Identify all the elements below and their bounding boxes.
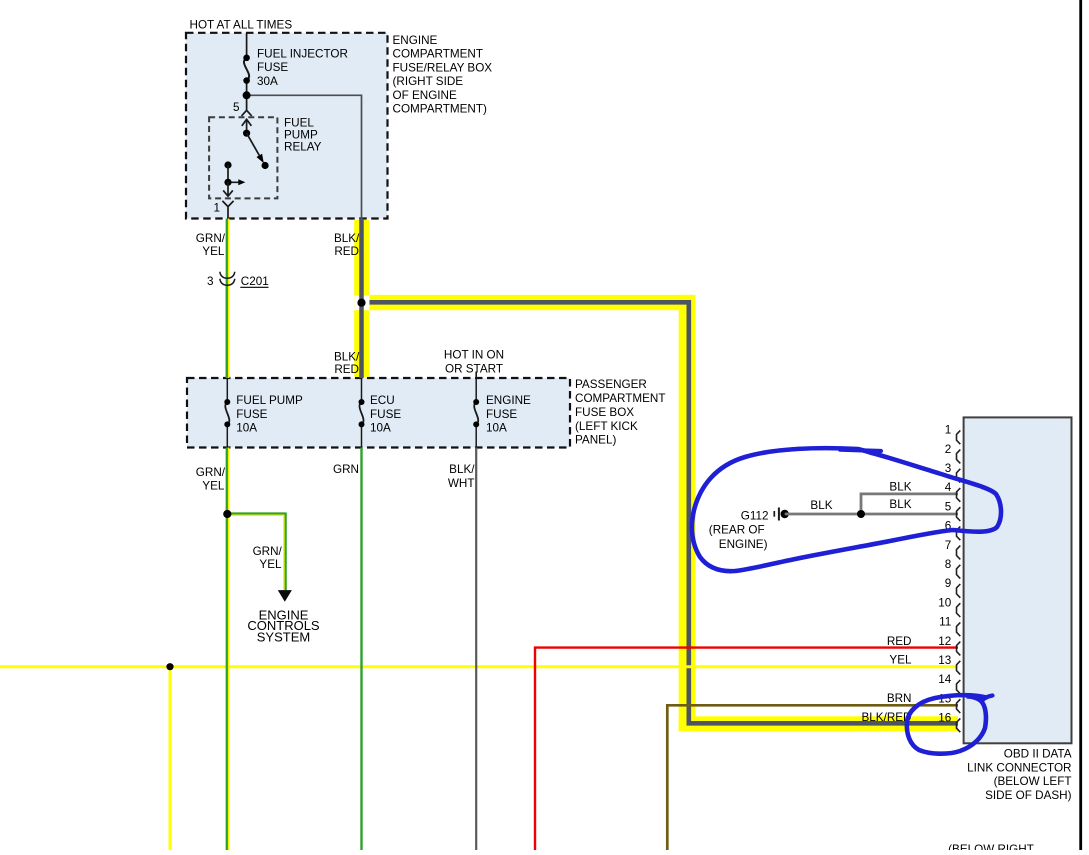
blue annotation circle around ground pins 4-6: [692, 448, 1001, 571]
highlight band on BLK/RED wire (vertical above junction): [354, 220, 369, 377]
svg-text:FUEL INJECTOR: FUEL INJECTOR: [257, 47, 348, 60]
BLK/RED wire (highlighted run to OBD pin 16): [370, 302, 959, 723]
svg-text:(REAR OF: (REAR OF: [709, 524, 765, 537]
relay switch common arm with up arrow: [242, 119, 252, 136]
svg-text:FUSE: FUSE: [236, 408, 267, 421]
svg-text:OBD II DATA: OBD II DATA: [1004, 748, 1072, 761]
label BLK/RED (above ECU fuse): [334, 350, 360, 376]
fuel pump fuse element: [224, 378, 230, 448]
OBD II data link connector box: [964, 417, 1072, 743]
label 1 (relay pin): [213, 202, 220, 215]
svg-text:10A: 10A: [236, 422, 257, 435]
BLK/WHT wire below engine fuse: [475, 448, 477, 851]
OBD II connector pin numbers: [938, 424, 952, 725]
svg-text:1: 1: [945, 424, 952, 437]
label (BELOW RIGHT (clipped at bottom): [948, 843, 1034, 855]
svg-text:BLK/: BLK/: [334, 350, 360, 363]
svg-text:OF ENGINE: OF ENGINE: [393, 89, 457, 102]
BLK/RED wire (highlighted, vertical from fuse/relay box to ECU fuse): [359, 219, 364, 379]
svg-text:RED: RED: [334, 245, 359, 258]
svg-text:OR START: OR START: [445, 362, 503, 375]
svg-text:ENGINE: ENGINE: [393, 34, 438, 47]
svg-text:SIDE OF DASH): SIDE OF DASH): [985, 789, 1071, 802]
label GRN: [333, 463, 359, 476]
label BLK/WHT: [448, 463, 475, 490]
svg-text:(BELOW RIGHT: (BELOW RIGHT: [948, 843, 1034, 850]
svg-text:COMPARTMENT: COMPARTMENT: [393, 48, 483, 61]
GRN wire below ECU fuse: [360, 448, 362, 851]
svg-text:COMPARTMENT): COMPARTMENT): [393, 103, 487, 116]
svg-text:GRN/: GRN/: [196, 466, 226, 479]
label (REAR OF ENGINE): [709, 524, 768, 551]
svg-text:RED: RED: [334, 363, 359, 376]
label engine compartment fuse/relay box: [393, 34, 493, 116]
label BRN: [887, 692, 912, 705]
svg-text:30A: 30A: [257, 75, 278, 88]
svg-text:HOT IN ON: HOT IN ON: [444, 349, 504, 362]
svg-text:8: 8: [945, 558, 952, 571]
ground G112: [774, 508, 789, 521]
svg-text:BLK/: BLK/: [334, 232, 360, 245]
GRN/YEL branch to engine controls system: [227, 514, 292, 602]
svg-text:(RIGHT SIDE: (RIGHT SIDE: [393, 75, 464, 88]
svg-text:FUSE/RELAY BOX: FUSE/RELAY BOX: [393, 61, 493, 74]
label RED: [887, 635, 912, 648]
fuel pump relay box: [209, 117, 277, 198]
svg-text:7: 7: [945, 539, 952, 552]
svg-text:BLK: BLK: [810, 499, 832, 512]
GRN/YEL wire below fuel pump fuse: [227, 448, 229, 851]
svg-text:ENGINE: ENGINE: [486, 394, 531, 407]
white knockout at highlighted junction: [354, 296, 369, 311]
BRN wire to pin 15: [667, 705, 958, 850]
relay coil-side contact and arrow: [224, 161, 245, 186]
svg-text:BLK: BLK: [889, 498, 911, 511]
svg-text:COMPARTMENT: COMPARTMENT: [575, 392, 665, 405]
svg-text:PASSENGER: PASSENGER: [575, 378, 647, 391]
svg-text:(LEFT KICK: (LEFT KICK: [575, 420, 638, 433]
svg-text:9: 9: [945, 577, 952, 590]
label engine fuse: [486, 394, 531, 435]
svg-text:HOT AT ALL TIMES: HOT AT ALL TIMES: [190, 19, 293, 32]
svg-text:BLK: BLK: [889, 480, 911, 493]
connector C201: [220, 272, 235, 286]
engine fuse element: [473, 378, 479, 448]
svg-text:BLK/RED: BLK/RED: [861, 711, 911, 724]
OBD II connector pin terminals 1-16: [957, 430, 961, 732]
svg-text:FUSE: FUSE: [370, 408, 401, 421]
svg-text:C201: C201: [241, 275, 269, 288]
svg-text:10A: 10A: [486, 422, 507, 435]
svg-text:3: 3: [945, 462, 952, 475]
junction on GRN/YEL wire: [223, 510, 231, 518]
engine compartment fuse/relay box: [186, 33, 388, 219]
svg-text:RED: RED: [887, 635, 912, 648]
svg-text:GRN/: GRN/: [253, 545, 283, 558]
highlight band vertical long: [679, 295, 696, 731]
svg-text:5: 5: [945, 500, 952, 513]
label FUEL PUMP RELAY: [284, 117, 322, 154]
label GRN/YEL (above fuse box): [196, 466, 226, 493]
svg-text:SYSTEM: SYSTEM: [257, 630, 310, 645]
svg-text:YEL: YEL: [259, 558, 282, 571]
YEL wire to pin 13: [0, 663, 958, 850]
svg-text:FUEL PUMP: FUEL PUMP: [236, 394, 303, 407]
ECU fuse element: [359, 378, 365, 448]
svg-text:BLK/: BLK/: [449, 463, 475, 476]
relay pin 5 connector chevron: [242, 110, 252, 116]
svg-text:1: 1: [213, 202, 220, 215]
highlight band bottom horizontal to pin 16: [679, 716, 958, 731]
svg-text:PANEL): PANEL): [575, 434, 616, 447]
wire from fuse to relay (black, with branch to BLK/RED): [247, 95, 362, 218]
label OBD II data link connector: [967, 748, 1072, 802]
svg-text:FUSE: FUSE: [257, 61, 288, 74]
fuel injector fuse element: [243, 55, 250, 84]
label BLK (pin 4): [889, 480, 911, 493]
svg-text:YEL: YEL: [889, 654, 912, 667]
label HOT AT ALL TIMES: [190, 19, 293, 32]
pin 1 connector chevron: [222, 201, 233, 219]
svg-text:ECU: ECU: [370, 394, 395, 407]
label BLK/RED (pin 16): [861, 711, 911, 724]
highlight band horizontal to right: [369, 295, 695, 310]
relay pin 1 exit with down arrow: [223, 182, 233, 196]
label BLK (G112 to junction): [810, 499, 832, 512]
label GRN/YEL (branch): [253, 545, 283, 571]
svg-text:YEL: YEL: [202, 245, 225, 258]
label G112: [741, 509, 769, 522]
svg-text:2: 2: [945, 443, 952, 456]
svg-text:YEL: YEL: [202, 480, 225, 493]
svg-text:GRN/: GRN/: [196, 232, 226, 245]
RED wire to pin 12: [535, 648, 958, 850]
page right border line: [1079, 0, 1082, 850]
blue annotation circle around pin 16: [907, 695, 993, 754]
svg-text:10A: 10A: [370, 422, 391, 435]
label 3 (C201 pin): [207, 275, 214, 288]
svg-text:FUSE: FUSE: [486, 408, 517, 421]
label 5 (relay pin): [233, 101, 240, 114]
svg-text:WHT: WHT: [448, 477, 475, 490]
label C201: [240, 275, 268, 288]
main feed wire at top: [246, 33, 248, 110]
BLK ground wires to pins 4 and 5: [785, 494, 958, 518]
svg-text:BRN: BRN: [887, 692, 912, 705]
svg-text:14: 14: [938, 673, 952, 686]
label YEL: [889, 654, 912, 667]
svg-text:5: 5: [233, 101, 240, 114]
label passenger compartment fuse box: [575, 378, 665, 447]
engine fuse feed stub: [475, 372, 477, 379]
svg-text:(BELOW LEFT: (BELOW LEFT: [994, 775, 1072, 788]
label GRN/YEL (above C201): [196, 232, 226, 258]
svg-text:RELAY: RELAY: [284, 140, 322, 153]
svg-text:G112: G112: [741, 509, 769, 522]
label fuel injector fuse: [257, 47, 348, 88]
label ECU fuse: [370, 394, 401, 435]
junction on highlighted BLK/RED wire: [357, 299, 365, 307]
svg-text:16: 16: [938, 712, 951, 725]
passenger compartment fuse box: [187, 378, 570, 448]
label BLK/RED (above junction): [334, 232, 360, 258]
GRN/YEL wire from C201 to fuel pump fuse: [227, 285, 229, 378]
label ENGINE CONTROLS SYSTEM: [247, 608, 320, 645]
svg-text:ENGINE): ENGINE): [719, 538, 768, 551]
relay switch blade: [247, 133, 269, 169]
svg-text:4: 4: [945, 481, 952, 494]
label fuel pump fuse: [236, 394, 303, 435]
GRN/YEL wire from relay pin 1 to C201: [227, 219, 229, 379]
svg-text:13: 13: [938, 654, 951, 667]
junction at fuse output: [243, 91, 251, 99]
svg-text:FUSE BOX: FUSE BOX: [575, 406, 634, 419]
svg-text:10: 10: [938, 596, 952, 609]
svg-text:GRN: GRN: [333, 463, 359, 476]
label BLK (pin 5): [889, 498, 911, 511]
svg-text:3: 3: [207, 275, 214, 288]
svg-text:LINK CONNECTOR: LINK CONNECTOR: [967, 761, 1071, 774]
label HOT IN ON OR START: [444, 349, 504, 376]
svg-text:12: 12: [938, 635, 951, 648]
svg-text:11: 11: [939, 616, 951, 629]
